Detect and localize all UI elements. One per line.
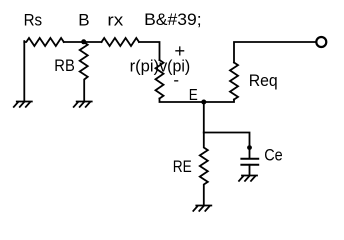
svg-text:Req: Req: [249, 71, 278, 90]
resistor RB: [80, 42, 88, 102]
wire: node E rail from r(pi) bottom to Req bottom: [160, 99, 235, 103]
ground (Ce): [239, 176, 257, 181]
svg-text:RE: RE: [173, 157, 192, 176]
svg-text:Ce: Ce: [264, 146, 283, 165]
wire: left input vertical (top rail to ground): [23, 41, 25, 101]
wire: branch from RE top across to Ce top: [204, 133, 250, 159]
node B junction dot: [81, 39, 86, 44]
svg-text:B: B: [78, 11, 89, 30]
capacitor Ce: [241, 159, 258, 175]
output terminal circle: [316, 37, 326, 47]
svg-text:r(pi): r(pi): [130, 56, 160, 75]
wire: top rail from Rs to node B: [64, 41, 84, 43]
svg-text:B&#39;: B&#39;: [144, 10, 202, 29]
ground (RB): [74, 102, 92, 107]
svg-text:E: E: [189, 87, 198, 104]
node E junction dot: [201, 100, 206, 105]
svg-text:rx: rx: [107, 11, 123, 30]
resistor RE: [200, 133, 208, 206]
resistor Rs: [24, 38, 64, 46]
svg-text:-: -: [173, 70, 179, 89]
ground (RE): [193, 206, 211, 211]
wire: node E vertical down to RE/Ce branch: [203, 102, 205, 133]
svg-text:RB: RB: [54, 56, 75, 75]
wire: Req top to output terminal: [234, 42, 316, 63]
wire: rx to node B' corner, down to r(pi) top: [139, 42, 160, 60]
ground (input source return): [14, 102, 32, 107]
wire: top rail from node B to rx: [84, 41, 102, 43]
resistor Req: [230, 63, 238, 100]
resistor r(pi): [156, 60, 164, 99]
node Ce junction dot: [247, 145, 252, 150]
svg-text:Rs: Rs: [24, 11, 42, 30]
resistor rx: [102, 38, 140, 46]
